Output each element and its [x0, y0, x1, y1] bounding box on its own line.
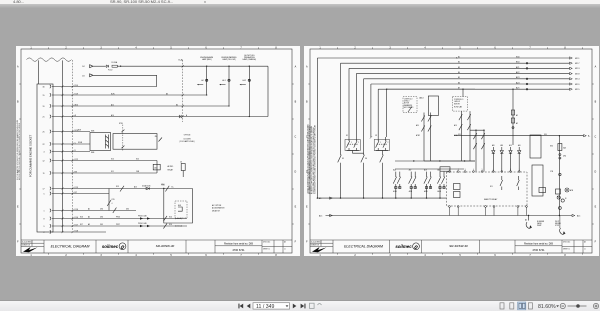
svg-text:RELAY: RELAY: [168, 169, 174, 172]
terminal strip X2 lower: [532, 165, 543, 196]
title block (left page): [21, 240, 292, 253]
svg-text:M2.9: M2.9: [575, 84, 580, 86]
svg-text:B5: B5: [458, 77, 460, 79]
node A5 feed junction: [317, 197, 318, 198]
svg-text:21: 21: [43, 116, 45, 118]
svg-text:ACCELERATION: ACCELERATION: [212, 207, 225, 210]
svg-text:A15: A15: [509, 144, 512, 147]
wire row 4: [52, 116, 268, 118]
selector contact S5: [340, 137, 342, 155]
svg-text:A22: A22: [516, 71, 519, 74]
svg-text:DRAWN CM: DRAWN CM: [311, 244, 320, 247]
output module A17: [409, 172, 417, 199]
svg-text:K6B: K6B: [91, 152, 95, 154]
wire row 10: [52, 188, 193, 190]
svg-text:SHEET 11: SHEET 11: [563, 249, 570, 251]
frame column ticks (left page): [19, 47, 294, 254]
safety relay terminal labels: [449, 169, 520, 171]
indicator A7B: [565, 188, 569, 192]
node row10 junction: [163, 188, 164, 189]
svg-text:B+: B+: [172, 187, 174, 189]
svg-text:STOP: STOP: [555, 225, 559, 227]
svg-text:IN AMBIENTE: IN AMBIENTE: [404, 104, 413, 107]
svg-text:A+: A+: [588, 135, 590, 138]
chain labels: [416, 124, 458, 137]
svg-text:03-10-08 REV.0: 03-10-08 REV.0: [22, 241, 33, 243]
safety relay K3 dashed enclosure: [447, 172, 528, 206]
svg-text:LAMP (YELLOW): LAMP (YELLOW): [222, 58, 236, 61]
svg-text:A14B: A14B: [438, 190, 441, 193]
note text, left margin (rotated): [16, 120, 21, 180]
wire row 3: [52, 105, 229, 107]
wire row 12: [52, 210, 136, 212]
connector pair J2 on row4: [179, 115, 182, 118]
svg-text:A15: A15: [319, 214, 322, 217]
wire row 2: [52, 94, 207, 96]
svg-text:J16: J16: [154, 168, 157, 170]
bus line mid2 with fuse: [395, 168, 464, 170]
svg-text:K19: K19: [75, 93, 78, 95]
svg-text:1: 1: [30, 254, 32, 256]
relay J16 box: [153, 164, 160, 170]
svg-text:PR17: PR17: [116, 224, 120, 226]
svg-text:K50: K50: [75, 85, 78, 87]
svg-text:B50: B50: [516, 62, 519, 64]
wire row 6: [52, 143, 90, 145]
svg-text:D30: D30: [100, 209, 103, 211]
pushbutton pair2 stub contact: [382, 151, 384, 156]
A/C option dashed box: [175, 201, 187, 218]
svg-text:DWG 1114: DWG 1114: [263, 242, 270, 244]
svg-text:C: C: [595, 136, 597, 139]
svg-text:PUMP: PUMP: [537, 225, 541, 227]
svg-text:OPTION: OPTION: [184, 134, 191, 136]
indicator lamp H4: [200, 56, 213, 61]
contact chain A20 lower: [421, 113, 424, 162]
svg-text:soilmec: soilmec: [102, 244, 119, 249]
output module A16: [393, 172, 401, 199]
svg-text:D30: D30: [126, 209, 129, 211]
solenoid hook AC: [528, 216, 530, 221]
frame column ticks (right page): [308, 47, 594, 254]
drawing frame border (right page): [310, 49, 592, 253]
wire loop row2 to row1: [156, 75, 158, 86]
svg-text:A25: A25: [516, 87, 519, 90]
wire A15 solenoid bus: [326, 215, 573, 217]
wire row 14: [52, 225, 187, 227]
svg-text:M: M: [565, 198, 567, 200]
wire loop rows10-10b: [108, 189, 110, 194]
selector contact S6: [363, 137, 365, 155]
svg-text:D30: D30: [100, 217, 103, 219]
diode D5: [106, 65, 108, 68]
svg-text:7: 7: [529, 254, 531, 256]
svg-text:6: 6: [494, 254, 496, 256]
svg-text:ALTER.: ALTER.: [168, 165, 174, 168]
svg-text:A: A: [295, 66, 297, 69]
svg-text:D: D: [295, 171, 297, 174]
svg-text:AC: AC: [525, 218, 528, 221]
wire squiggle drop B / harness line: [62, 60, 64, 232]
svg-text:K22: K22: [75, 159, 78, 161]
svg-text:A12: A12: [111, 103, 114, 106]
svg-text:15: 15: [43, 95, 45, 97]
wire row 11: [52, 193, 109, 195]
wire number labels: [75, 85, 78, 233]
output module A18: [424, 172, 432, 199]
svg-text:E: E: [306, 206, 308, 209]
svg-text:A: A: [595, 66, 597, 69]
svg-text:19: 19: [43, 106, 45, 108]
company logo arrow (right page): [312, 247, 327, 252]
contact chain A7B: [481, 130, 484, 171]
svg-text:M2.4: M2.4: [575, 79, 580, 81]
svg-text:A2: A2: [516, 122, 518, 125]
pushbutton pair 2: [374, 137, 389, 151]
svg-text:SR-30/SW-30: SR-30/SW-30: [156, 244, 175, 248]
pushbutton pair 1: [345, 137, 360, 151]
svg-text:A14: A14: [111, 114, 114, 117]
svg-text:A24: A24: [516, 81, 519, 84]
svg-text:B28: B28: [78, 130, 81, 132]
svg-text:30A: 30A: [563, 147, 566, 150]
svg-text:A16B: A16B: [393, 190, 396, 193]
svg-text:K30: K30: [516, 56, 519, 58]
svg-text:8: 8: [564, 254, 566, 256]
svg-text:A19: A19: [500, 144, 503, 147]
svg-text:11: 11: [584, 249, 586, 251]
wire row 1: [52, 86, 157, 88]
svg-text:F1 D2: F1 D2: [108, 70, 112, 72]
contact on row11: [113, 208, 117, 213]
svg-text:5: 5: [44, 193, 45, 195]
svg-text:K30: K30: [550, 146, 553, 148]
wire loop around A/C option: [164, 189, 193, 224]
svg-text:C6B: C6B: [136, 171, 139, 173]
svg-text:B+AL: B+AL: [179, 58, 183, 61]
svg-text:A15: A15: [134, 186, 137, 189]
output module A14: [437, 172, 445, 199]
svg-text:A2: A2: [88, 216, 90, 219]
svg-text:30: 30: [43, 86, 45, 88]
wire bus right drop to row4: [267, 66, 269, 116]
svg-text:4700 6741: 4700 6741: [532, 248, 545, 252]
svg-text:22: 22: [43, 144, 45, 146]
left page: electrical diagram sheet 11: [16, 46, 300, 256]
safety relay bottom terminals: [449, 206, 528, 216]
frame zone numbers (right page): [306, 47, 597, 257]
contact chain A23 lower: [467, 111, 470, 161]
wire M2 stub run 8: [387, 88, 475, 90]
svg-text:3: 3: [100, 254, 102, 256]
svg-text:H4: H4: [201, 80, 203, 82]
fuse F30 on battery feed: [558, 144, 562, 151]
safety relay top terminals: [449, 171, 520, 173]
svg-text:EV6: EV6: [178, 205, 181, 207]
svg-text:A23: A23: [516, 76, 519, 79]
svg-text:A19: A19: [454, 124, 457, 127]
svg-text:F: F: [595, 241, 597, 244]
svg-text:1/4: 1/4: [82, 66, 85, 68]
svg-text:K20: K20: [136, 159, 139, 161]
svg-text:4700 6741: 4700 6741: [232, 248, 245, 252]
svg-text:H4.1: H4.1: [222, 80, 226, 82]
wire row 8: [52, 160, 157, 162]
relay boxes M1 M3: [539, 188, 546, 193]
svg-text:A1: A1: [88, 208, 90, 211]
svg-text:K17: K17: [75, 224, 78, 226]
svg-text:S1: S1: [346, 135, 348, 137]
svg-text:M2.8: M2.8: [575, 73, 580, 75]
label pilot engine stop: [555, 221, 561, 227]
svg-text:IN TW CAB: IN TW CAB: [454, 105, 462, 108]
svg-text:M2.5: M2.5: [575, 89, 580, 91]
wire M2 run 2: [341, 62, 570, 64]
svg-text:1/4: 1/4: [82, 75, 85, 77]
svg-text:(terminal): (terminal): [175, 225, 182, 228]
svg-text:K15: K15: [112, 199, 115, 201]
svg-text:A2: A2: [516, 114, 518, 117]
title block (right page): [310, 240, 592, 253]
indicator lamp H4.1: [221, 56, 237, 61]
svg-text:11 / 349: 11 / 349: [256, 304, 274, 310]
svg-text:17: 17: [43, 188, 45, 190]
svg-text:B4: B4: [458, 72, 460, 74]
wire link chains: [424, 130, 484, 161]
relay K6 coil hatch: [106, 135, 109, 149]
svg-text:B2: B2: [458, 62, 460, 64]
svg-text:K16: K16: [80, 217, 83, 219]
svg-text:C: C: [295, 136, 297, 139]
svg-text:F: F: [306, 241, 308, 244]
svg-text:4: 4: [424, 254, 426, 256]
contact chain K30B: [473, 130, 476, 171]
svg-text:CAB.2: CAB.2: [419, 96, 424, 99]
svg-text:SAFETY RELAY: SAFETY RELAY: [484, 198, 498, 201]
svg-text:8: 8: [275, 254, 277, 256]
svg-text:B: B: [595, 101, 597, 104]
relay contact K7/B (dashed link): [122, 125, 124, 151]
svg-text:(terminal): (terminal): [175, 217, 182, 220]
right page: electrical diagram sheet 12: [304, 46, 599, 256]
svg-text:A10: A10: [518, 144, 521, 147]
label bleeder valve pump: [537, 221, 545, 227]
svg-text:DRAWN CM: DRAWN CM: [22, 244, 31, 247]
control box CONTROLLO 2 (dashed): [452, 97, 467, 112]
svg-text:(7B): (7B): [563, 156, 566, 158]
svg-text:A5: A5: [319, 197, 321, 200]
svg-text:E8: E8: [75, 171, 77, 173]
svg-text:2: 2: [44, 232, 45, 234]
svg-text:2: 2: [388, 142, 389, 144]
capacitor C6: [181, 164, 185, 171]
wire M2 run 1: [317, 57, 569, 59]
control box CONTROLLO 1 (dashed): [403, 97, 417, 113]
svg-text:LAMP (ORANGE): LAMP (ORANGE): [243, 58, 257, 61]
indicator lamp H4.2: [243, 55, 257, 61]
svg-text:K11: K11: [111, 171, 114, 173]
svg-text:4: 4: [112, 203, 113, 205]
svg-text:MOTOR: MOTOR: [404, 102, 409, 104]
svg-text:K18: K18: [161, 184, 164, 186]
svg-text:D31: D31: [100, 224, 103, 226]
svg-text:PR16 D14B: PR16 D14B: [138, 216, 146, 218]
svg-text:1: 1: [44, 210, 45, 212]
svg-text:S5: S5: [342, 158, 344, 160]
svg-text:H4.2: H4.2: [243, 80, 247, 82]
svg-text:A17B: A17B: [409, 190, 412, 193]
solenoid EV6 inside A/C box: [178, 207, 182, 211]
svg-text:PR16: PR16: [116, 217, 120, 219]
svg-text:Revision from serial no. D09: Revision from serial no. D09: [524, 242, 554, 245]
svg-text:25: 25: [43, 131, 45, 133]
svg-text:K18: K18: [75, 230, 78, 232]
svg-text:F: F: [295, 241, 297, 244]
wire M2 run 5: [364, 78, 570, 80]
terminal strip X2 upper: [530, 135, 541, 158]
svg-text:B: B: [17, 101, 19, 104]
svg-text:DWG 1114: DWG 1114: [563, 242, 570, 244]
svg-text:6: 6: [205, 254, 207, 256]
extra wire tag labels: [78, 93, 188, 226]
wire squiggle drop A: [38, 60, 40, 84]
svg-text:LAMP (RED): LAMP (RED): [202, 58, 212, 61]
sheet number boxes (left page): [263, 241, 286, 251]
svg-text:C6: C6: [180, 161, 182, 163]
note text, left margin right page (rotated): [306, 124, 316, 194]
wire M2 run 7: [378, 88, 569, 90]
svg-text:12: 12: [43, 160, 45, 162]
svg-text:K3: K3: [490, 186, 493, 188]
solenoid hook pilot: [560, 228, 565, 234]
svg-text:A15: A15: [577, 214, 580, 217]
wire M2 run 3: [349, 67, 570, 69]
svg-text:CONTROLLO: CONTROLLO: [404, 98, 412, 100]
svg-text:2: 2: [358, 142, 359, 144]
svg-text:2: 2: [65, 254, 67, 256]
sheet number boxes (right page): [563, 241, 586, 251]
svg-text:M2.1: M2.1: [575, 58, 580, 60]
mid wire labels right page: [456, 58, 547, 136]
svg-text:K10: K10: [111, 159, 114, 161]
svg-text:A7B2: A7B2: [416, 134, 420, 137]
svg-text:PR16 D14B: PR16 D14B: [138, 223, 146, 225]
svg-text:K30: K30: [544, 134, 547, 136]
drawing frame border (left page): [21, 49, 292, 253]
svg-text:K14: K14: [169, 224, 172, 226]
svg-text:D: D: [595, 171, 597, 174]
svg-text:FOR CUMMINS ENGINE SOCKET: FOR CUMMINS ENGINE SOCKET: [29, 135, 33, 177]
svg-text:K16: K16: [75, 209, 78, 211]
svg-text:1: 1: [319, 254, 321, 256]
A/C option label: [212, 204, 225, 213]
svg-text:B6: B6: [458, 82, 460, 84]
bus line mid1: [395, 160, 475, 162]
wire row 7: [52, 151, 90, 153]
svg-text:E: E: [595, 206, 597, 209]
harness boundary (dashed): [72, 60, 74, 230]
svg-text:J20: J20: [155, 136, 158, 138]
motor-pump cluster: [557, 196, 560, 199]
svg-text:5: 5: [170, 254, 172, 256]
svg-text:A3: A3: [584, 241, 586, 244]
svg-text:S6: S6: [365, 158, 367, 160]
svg-text:03-10-08 REV.0: 03-10-08 REV.0: [311, 241, 322, 243]
svg-text:LIVELLO: LIVELLO: [404, 100, 409, 102]
svg-text:DELAY KIT: DELAY KIT: [212, 209, 220, 212]
wire drop 66.9 end tick: [370, 136, 372, 138]
svg-text:4: 4: [44, 151, 45, 153]
svg-text:MOTOR: MOTOR: [454, 103, 460, 105]
svg-text:A3: A3: [88, 223, 90, 226]
top tab strip: [0, 0, 600, 4]
wire M2 run 4: [356, 73, 569, 75]
svg-text:S2: S2: [375, 135, 377, 137]
wire A+ feed: [454, 135, 584, 137]
relay contact K15/B vertical: [108, 194, 110, 211]
svg-text:A20: A20: [492, 144, 495, 147]
svg-text:B+: B+: [456, 58, 458, 60]
svg-text:A21: A21: [516, 66, 519, 69]
svg-text:B3: B3: [166, 93, 168, 95]
svg-text:Revision from serial no. D09: Revision from serial no. D09: [224, 242, 254, 245]
svg-text:9: 9: [44, 226, 45, 228]
wire lamp bus: [117, 65, 268, 67]
svg-text:PILOT: PILOT: [555, 221, 559, 223]
svg-text:K19: K19: [75, 187, 78, 189]
svg-text:K50B: K50B: [78, 142, 82, 144]
svg-text:F: F: [17, 241, 19, 244]
cable squiggle W1: [27, 58, 72, 61]
box aftercooler: [113, 134, 157, 150]
svg-text:A18B: A18B: [424, 190, 427, 193]
svg-text:K16: K16: [75, 217, 78, 219]
svg-text:11: 11: [43, 173, 45, 175]
company logo arrow (left page): [23, 247, 38, 252]
svg-text:5: 5: [459, 254, 461, 256]
svg-text:3: 3: [389, 254, 391, 256]
wire row 15: [52, 231, 106, 233]
sensor chain A2: [512, 89, 514, 145]
svg-text:ELECTRICAL DIAGRAM: ELECTRICAL DIAGRAM: [51, 244, 90, 248]
svg-text:2: 2: [354, 254, 356, 256]
svg-text:A7B: A7B: [570, 189, 573, 192]
svg-text:A: A: [306, 66, 308, 69]
wire row 9: [52, 172, 157, 174]
wire box2 drop: [462, 89, 464, 96]
svg-text:B: B: [306, 101, 308, 104]
svg-text:SHEET 11: SHEET 11: [263, 249, 270, 251]
frame zone numbers (left page): [17, 47, 297, 257]
svg-text:B4: B4: [176, 104, 178, 106]
svg-text:B: B: [295, 101, 297, 104]
svg-text:K30: K30: [458, 134, 461, 136]
svg-text:C7B: C7B: [550, 171, 553, 173]
wire row 13: [52, 218, 187, 220]
svg-text:A20: A20: [416, 124, 419, 127]
svg-text:7: 7: [240, 254, 242, 256]
label alternator relay: [168, 165, 174, 172]
soilmec round emblem (left page): [119, 243, 126, 250]
connector X1 shell: [37, 84, 53, 232]
svg-text:M2.7: M2.7: [575, 63, 580, 65]
node bus junction: [120, 66, 121, 67]
svg-text:11: 11: [284, 249, 286, 251]
wire battery main vertical: [558, 136, 560, 216]
harness boundary 2 (dashed): [182, 60, 184, 122]
svg-text:K7/B: K7/B: [119, 123, 124, 125]
wire loop rows8-9: [156, 161, 158, 174]
